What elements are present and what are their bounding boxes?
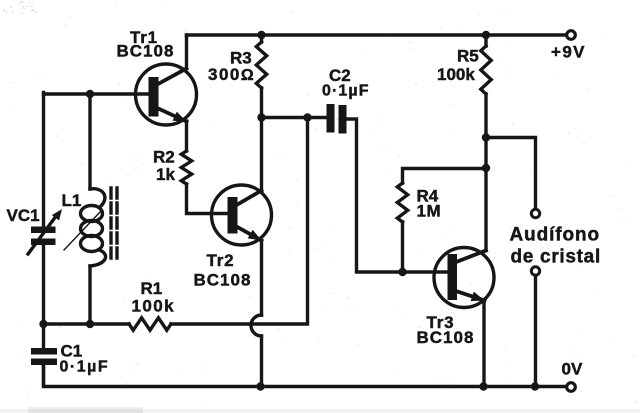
svg-text:0·1µF: 0·1µF	[322, 83, 370, 100]
svg-text:R2: R2	[153, 148, 175, 167]
node L1/R1 junction dot	[86, 320, 94, 328]
wire C2 to Tr3 base	[347, 119, 448, 272]
terminal 0V circle	[567, 383, 576, 392]
node Tr3-emitter/rail junction dot	[479, 382, 487, 390]
wire R4 bottom lead	[401, 222, 404, 272]
svg-text:+9V: +9V	[551, 43, 586, 62]
wire Tr3 emitter to 0V rail	[482, 301, 485, 387]
capacitor C2 plate right	[339, 105, 347, 134]
svg-text:R5: R5	[457, 47, 479, 66]
resistor R1 zigzag	[129, 318, 171, 330]
wire R4 top to collector node	[403, 169, 487, 184]
transistor Tr2 emitter arrow	[248, 230, 262, 241]
svg-text:0·1µF: 0·1µF	[60, 359, 110, 376]
wire earphone bottom to 0V rail	[534, 276, 537, 387]
transistor Tr3 circle	[434, 248, 494, 308]
wire rail to R5	[484, 35, 487, 46]
transistor Tr1 circle	[136, 64, 197, 125]
transistor Tr2 emitter stroke	[237, 227, 262, 241]
resistor R5 zigzag	[481, 46, 491, 94]
svg-text:100k: 100k	[437, 65, 475, 84]
wire VC1 to C1	[42, 245, 45, 348]
svg-text:de cristal: de cristal	[511, 247, 601, 268]
node rail/R3 junction dot	[257, 31, 265, 39]
transistor Tr3 collector stroke	[456, 251, 486, 263]
node R4 tap junction dot	[482, 164, 490, 172]
wire 0V rail	[44, 365, 567, 387]
node rail/R5 junction dot	[482, 31, 490, 39]
svg-text:Tr2: Tr2	[207, 251, 235, 270]
transistor Tr1 base bar	[149, 77, 159, 117]
coil L1 adjustable core slash	[64, 211, 101, 250]
svg-text:1M: 1M	[417, 202, 442, 221]
svg-text:L1: L1	[62, 191, 82, 210]
wire left column VC1 branch	[42, 93, 45, 227]
capacitor C1 plate bottom	[31, 359, 57, 366]
transistor Tr3 base bar	[448, 254, 458, 300]
coil L1 loop 3	[81, 236, 103, 252]
wire R1 right to C2 node	[171, 118, 308, 325]
capacitor C1 plate top	[31, 348, 57, 355]
node emitter/rail junction dot	[256, 382, 264, 390]
node C2/R1 junction dot	[303, 113, 311, 121]
node R4/Tr3-base junction dot	[398, 268, 406, 276]
resistor R3 zigzag	[256, 42, 266, 88]
svg-text:Audífono: Audífono	[510, 225, 601, 246]
coil L1 loop 2	[81, 221, 103, 237]
wire hop over R1 wire	[251, 315, 262, 336]
coil L1 bottom hump	[90, 251, 106, 267]
resistor R2 zigzag	[181, 151, 191, 184]
wire top +9V rail	[187, 35, 567, 37]
wire collector tap to C2	[262, 116, 327, 119]
capacitor VC1 plate top	[31, 227, 56, 234]
svg-text:BC108: BC108	[117, 42, 175, 61]
node earphone tap junction dot	[482, 133, 490, 141]
coil L1 core dashes left	[109, 188, 112, 263]
transistor Tr2 base bar	[228, 197, 238, 234]
svg-text:300Ω: 300Ω	[208, 65, 255, 84]
svg-text:BC108: BC108	[417, 328, 475, 347]
wire C1 to 0V rail	[42, 365, 45, 385]
coil L1 core dashes right	[115, 188, 118, 263]
transistor Tr1 emitter stroke	[157, 108, 187, 122]
node tank-top junction dot	[86, 90, 94, 98]
terminal earphone bottom circle	[531, 267, 539, 275]
transistor Tr3 emitter arrow	[471, 292, 485, 302]
svg-text:R1: R1	[141, 279, 163, 298]
coil L1 top hump	[90, 189, 105, 207]
svg-text:1k: 1k	[156, 165, 175, 184]
node Tr2-collector/C2 junction dot	[257, 113, 265, 121]
wire Tr1 collector to rail	[185, 35, 188, 69]
resistor R4 zigzag	[397, 183, 407, 222]
transistor Tr1 collector stroke	[157, 69, 187, 85]
capacitor VC1 arrow head	[52, 209, 62, 221]
wire R3 to Tr2 collector	[260, 88, 263, 191]
wire rail to R3	[260, 35, 263, 42]
svg-text:100k: 100k	[132, 297, 175, 316]
terminal +9V circle	[567, 31, 576, 40]
svg-text:BC108: BC108	[194, 271, 252, 290]
wire tank top to Tr1 base	[44, 92, 149, 95]
wire Tr2 emitter to 0V rail	[260, 336, 263, 387]
wire R2 to Tr2 base	[187, 184, 228, 214]
wire R5 to Tr3 collector	[484, 94, 487, 251]
transistor Tr2 collector stroke	[237, 191, 262, 206]
capacitor VC1 plate bottom	[31, 239, 56, 246]
wire collector node to earphone top	[486, 138, 536, 209]
coil L1 lead top	[88, 94, 91, 189]
coil L1 lead bottom	[88, 266, 91, 324]
svg-text:0V: 0V	[562, 360, 583, 379]
transistor Tr3 emitter stroke	[456, 291, 485, 301]
coil L1 loop 1	[81, 206, 103, 222]
transistor Tr2 circle	[212, 185, 272, 245]
node earphone/rail junction dot	[531, 382, 539, 390]
wire Tr2 emitter down	[260, 241, 263, 316]
capacitor VC1 arrow stroke	[28, 218, 55, 255]
node VC1/R1 junction dot	[39, 320, 47, 328]
terminal earphone top circle	[531, 209, 539, 217]
transistor Tr1 emitter arrow	[173, 112, 187, 122]
wire R1 left	[44, 322, 130, 325]
wire Tr1 emitter to R2	[185, 121, 188, 151]
capacitor C2 plate left	[327, 104, 335, 133]
svg-text:VC1: VC1	[7, 206, 40, 225]
